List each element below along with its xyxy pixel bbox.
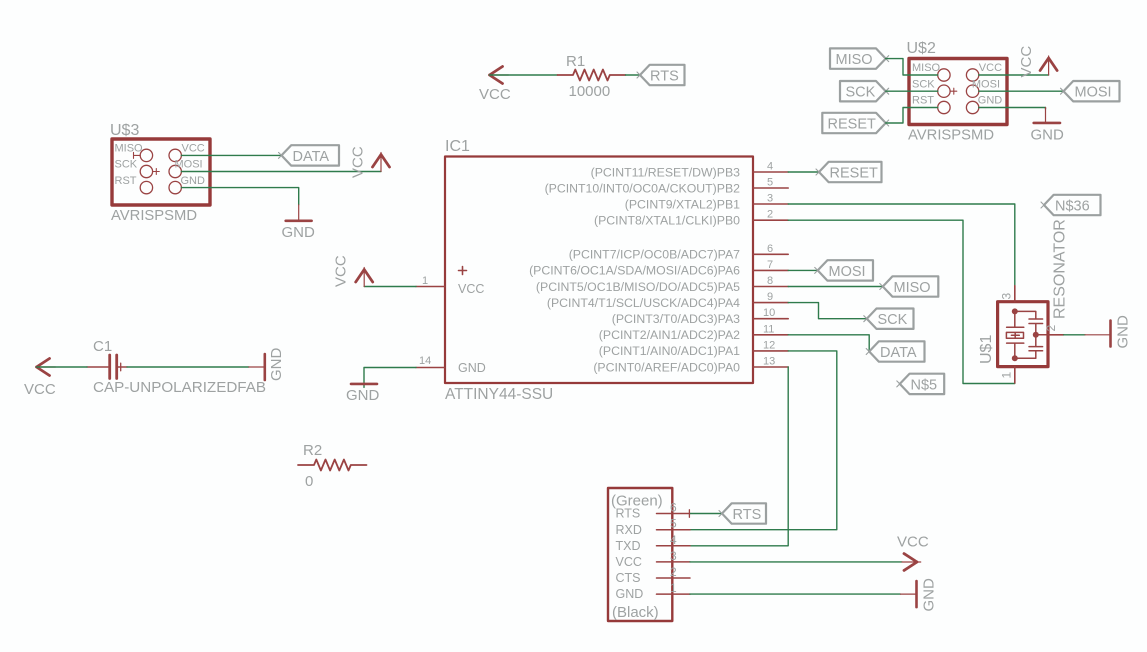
svg-text:GND: GND <box>181 175 206 187</box>
svg-text:VCC: VCC <box>333 255 350 287</box>
U$3 pin GND <box>169 175 205 194</box>
wire IC1 pin7 to MOSI flag <box>788 269 818 271</box>
svg-text:(PCINT3/T0/ADC3)PA3: (PCINT3/T0/ADC3)PA3 <box>612 312 740 326</box>
svg-text:N$36: N$36 <box>1055 199 1090 215</box>
svg-text:R2: R2 <box>303 442 322 459</box>
wire IC1 pin1 to VCC supply <box>364 286 416 288</box>
svg-text:2: 2 <box>767 209 773 221</box>
svg-text:RTS: RTS <box>650 69 679 85</box>
wire C1 to GND symbol <box>127 366 249 368</box>
svg-text:AVRISPSMD: AVRISPSMD <box>111 208 197 224</box>
svg-text:VCC: VCC <box>897 534 929 551</box>
net flag MISO (at IC1 pin8) <box>880 276 939 296</box>
ground GND (at J1, rotated) <box>901 578 938 612</box>
wire IC1 pin4 to RESET flag <box>788 171 819 173</box>
svg-text:2: 2 <box>1044 325 1058 332</box>
ground GND (at U$1, rotated) <box>1085 315 1132 349</box>
ground GND (at U$3) <box>282 205 316 241</box>
svg-text:VCC: VCC <box>182 143 205 155</box>
svg-text:10: 10 <box>763 307 775 319</box>
IC1 pin 14 (GND) <box>416 355 445 368</box>
IC1 pin 3 (PB1) <box>625 193 788 212</box>
svg-text:U$2: U$2 <box>907 40 936 57</box>
svg-text:1: 1 <box>670 581 677 595</box>
wire J1 RTS to RTS flag <box>689 510 722 518</box>
net flag RTS (bottom) <box>719 503 766 523</box>
IC1 pin 12 (PA1) <box>599 339 788 358</box>
svg-text:CAP-UNPOLARIZEDFAB: CAP-UNPOLARIZEDFAB <box>93 379 266 396</box>
U$2 pin MOSI <box>966 78 1000 97</box>
svg-text:12: 12 <box>763 339 775 351</box>
svg-text:GND: GND <box>458 361 486 375</box>
wire SCK flag to U$2 <box>886 90 938 92</box>
wire IC1 pin13 to FTDI TXD <box>690 367 788 546</box>
U$2 pin SCK <box>912 78 957 97</box>
svg-text:3: 3 <box>670 549 677 563</box>
svg-text:RESONATOR: RESONATOR <box>1052 219 1069 319</box>
svg-text:RTS: RTS <box>733 507 762 523</box>
IC1 pin 2 (PB0) <box>594 209 788 228</box>
IC1 pin 1 (VCC) <box>416 275 445 287</box>
svg-text:SCK: SCK <box>115 159 138 171</box>
wire U$2 GND pin to GND symbol <box>979 108 1046 110</box>
wire J1 GND to GND symbol <box>690 593 901 595</box>
svg-text:(PCINT7/ICP/OC0B/ADC7)PA7: (PCINT7/ICP/OC0B/ADC7)PA7 <box>569 248 740 262</box>
svg-text:(PCINT9/XTAL2)PB1: (PCINT9/XTAL2)PB1 <box>625 197 740 211</box>
supply VCC (at C1) <box>24 359 56 399</box>
component U$1 RESONATOR body <box>998 302 1048 367</box>
supply VCC (at U$2) <box>1018 46 1057 78</box>
svg-text:(PCINT2/AIN1/ADC2)PA2: (PCINT2/AIN1/ADC2)PA2 <box>599 328 740 342</box>
svg-text:14: 14 <box>419 355 431 367</box>
component U$2 AVRISPSMD body <box>909 59 1007 125</box>
net flag RESET (at IC1 pin4) <box>816 162 882 182</box>
svg-text:GND: GND <box>978 95 1003 107</box>
wire MISO flag to U$2 <box>886 59 938 75</box>
svg-text:RST: RST <box>912 95 934 107</box>
U$3 pin RST <box>115 175 153 194</box>
svg-text:VCC: VCC <box>24 381 56 398</box>
net flag N$5 <box>897 374 944 394</box>
wire U$1 pin2 to GND symbol <box>1064 334 1085 336</box>
svg-text:U$3: U$3 <box>110 122 139 139</box>
IC1 pin 4 (PB3) <box>591 161 789 180</box>
svg-text:MISO: MISO <box>912 62 941 74</box>
svg-text:(PCINT5/OC1B/MISO/DO/ADC5)PA5: (PCINT5/OC1B/MISO/DO/ADC5)PA5 <box>536 280 740 294</box>
wire IC1 pin11 to DATA flag <box>788 335 869 352</box>
svg-text:MOSI: MOSI <box>175 159 203 171</box>
U$1 crystal branch <box>1006 311 1023 358</box>
wire U$3 GND pin to GND symbol <box>181 188 298 205</box>
svg-text:RXD: RXD <box>616 523 642 537</box>
net flag MOSI (at IC1 pin7) <box>815 260 873 280</box>
J1 pin 5 RXD <box>616 517 691 537</box>
svg-text:GND: GND <box>921 578 938 612</box>
U$1 pin 3 <box>1000 286 1015 302</box>
net flag N$36 <box>1041 195 1101 215</box>
net flag DATA (left) <box>279 145 340 165</box>
svg-text:GND: GND <box>346 387 380 404</box>
J1 pin 1 GND <box>616 581 691 601</box>
net flag DATA (at IC1 pin11) <box>866 341 924 361</box>
net flag RTS (top) <box>637 65 685 85</box>
svg-text:10000: 10000 <box>569 83 611 100</box>
IC1 pin 13 (PA0) <box>593 356 788 375</box>
svg-text:7: 7 <box>767 259 773 271</box>
svg-text:SCK: SCK <box>912 78 935 90</box>
IC1 pin 9 (PA4) <box>547 291 788 310</box>
svg-text:GND: GND <box>616 587 644 601</box>
svg-text:N$5: N$5 <box>911 377 938 393</box>
svg-text:VCC: VCC <box>350 146 367 178</box>
wire VCC to R1 <box>490 74 558 76</box>
J1 pin 3 VCC <box>616 549 691 569</box>
svg-text:9: 9 <box>767 291 773 303</box>
IC1 pin 6 (PA7) <box>569 243 788 262</box>
svg-text:3: 3 <box>1000 293 1014 300</box>
U$3 pin VCC <box>169 143 205 162</box>
svg-text:RESET: RESET <box>828 117 876 133</box>
supply VCC (at J1, pointing right) <box>897 534 929 571</box>
svg-text:13: 13 <box>763 356 775 368</box>
wire U$2 MOSI pin to MOSI flag <box>979 90 1064 92</box>
svg-text:SCK: SCK <box>878 312 908 328</box>
svg-text:AVRISPSMD: AVRISPSMD <box>908 128 994 144</box>
svg-text:11: 11 <box>763 323 774 335</box>
net flag SCK (at IC1 pin9) <box>864 309 914 329</box>
wire IC1 pin14 to GND symbol <box>364 368 416 388</box>
svg-text:VCC: VCC <box>479 86 511 103</box>
svg-text:GND: GND <box>1115 315 1132 349</box>
resistor R2 <box>298 460 367 471</box>
U$1 node dot pin1 <box>1012 355 1018 361</box>
svg-text:2: 2 <box>670 565 677 579</box>
svg-text:(PCINT0/AREF/ADC0)PA0: (PCINT0/AREF/ADC0)PA0 <box>593 360 740 374</box>
U$3 pin MISO <box>115 143 153 162</box>
IC1 pin 10 (PA3) <box>612 307 788 326</box>
svg-text:C1: C1 <box>93 338 112 355</box>
svg-text:MISO: MISO <box>894 280 931 296</box>
svg-text:SCK: SCK <box>846 85 876 101</box>
capacitor C1 <box>87 355 127 379</box>
svg-text:U$1: U$1 <box>978 335 995 364</box>
svg-text:VCC: VCC <box>1018 46 1035 78</box>
svg-text:CTS: CTS <box>616 571 641 585</box>
U$1 node dot pin2 <box>1033 332 1039 338</box>
svg-text:(PCINT11/RESET/DW)PB3: (PCINT11/RESET/DW)PB3 <box>591 165 741 179</box>
svg-text:DATA: DATA <box>880 345 917 361</box>
svg-text:4: 4 <box>670 533 677 547</box>
J1 pin 2 CTS <box>616 565 691 585</box>
IC1 pin 8 (PA5) <box>536 275 788 294</box>
svg-text:GND: GND <box>268 348 285 382</box>
svg-text:5: 5 <box>767 177 773 189</box>
wire VCC to C1 <box>37 366 88 368</box>
resistor R1 <box>558 70 626 81</box>
U$1 capacitors branch <box>1015 311 1048 358</box>
svg-text:GND: GND <box>1031 127 1065 144</box>
supply VCC (top, at R1) <box>479 67 511 104</box>
svg-text:(PCINT10/INT0/OC0A/CKOUT)PB2: (PCINT10/INT0/OC0A/CKOUT)PB2 <box>545 181 741 195</box>
svg-text:1: 1 <box>1000 372 1014 379</box>
svg-text:3: 3 <box>767 193 773 205</box>
ground GND (at C1, rotated) <box>249 348 285 382</box>
svg-text:1: 1 <box>422 275 428 287</box>
U$2 pin MISO <box>912 62 950 81</box>
svg-text:MOSI: MOSI <box>829 264 866 280</box>
svg-text:IC1: IC1 <box>445 138 470 155</box>
svg-text:TXD: TXD <box>616 539 641 553</box>
svg-text:5: 5 <box>670 517 677 531</box>
wire U$3 VCC pin to DATA flag <box>181 154 281 156</box>
wire U$3 MOSI pin to VCC supply <box>181 171 381 173</box>
svg-text:MOSI: MOSI <box>1075 85 1112 101</box>
connector J1 FTDI header body <box>608 488 672 621</box>
U$1 pin 2 <box>1044 325 1064 335</box>
IC IC1 ATTINY44 body <box>445 157 753 384</box>
svg-text:GND: GND <box>282 224 316 241</box>
IC1 pin 7 (PA6) <box>529 259 788 278</box>
svg-text:VCC: VCC <box>458 282 484 296</box>
svg-text:R1: R1 <box>566 53 585 70</box>
U$3 pin SCK <box>115 159 160 178</box>
net flag MISO (top right header) <box>830 48 889 68</box>
svg-text:MISO: MISO <box>115 143 144 155</box>
svg-text:RST: RST <box>115 175 137 187</box>
svg-text:(PCINT6/OC1A/SDA/MOSI/ADC6)PA6: (PCINT6/OC1A/SDA/MOSI/ADC6)PA6 <box>529 264 740 278</box>
svg-text:8: 8 <box>767 275 773 287</box>
svg-text:(PCINT1/AIN0/ADC1)PA1: (PCINT1/AIN0/ADC1)PA1 <box>599 344 740 358</box>
svg-text:0: 0 <box>305 473 313 490</box>
svg-text:MOSI: MOSI <box>972 78 1000 90</box>
wire R1 to RTS flag <box>626 74 641 76</box>
wire IC1 pin12 to FTDI RXD <box>690 351 837 530</box>
wire IC1 pin8 to MISO flag <box>788 286 883 288</box>
net flag MOSI (right) <box>1061 81 1120 101</box>
svg-text:(Black): (Black) <box>612 604 659 621</box>
svg-text:VCC: VCC <box>616 555 642 569</box>
wire U$2 VCC pin to VCC supply <box>979 74 1049 76</box>
svg-text:(PCINT4/T1/SCL/USCK/ADC4)PA4: (PCINT4/T1/SCL/USCK/ADC4)PA4 <box>547 296 740 310</box>
J1 pin 6 RTS <box>616 501 691 521</box>
svg-text:RTS: RTS <box>616 507 641 521</box>
svg-text:VCC: VCC <box>979 62 1002 74</box>
supply VCC (at IC1 pin1) <box>333 255 373 287</box>
svg-text:4: 4 <box>767 161 773 173</box>
wire IC1 pin2 to resonator pin1 <box>788 220 1015 383</box>
U$2 pin GND <box>966 95 1002 114</box>
wire RESET flag to U$2 <box>886 108 938 124</box>
svg-text:MISO: MISO <box>836 52 873 68</box>
component U$3 AVRISPSMD body <box>112 139 210 205</box>
U$3 pin MOSI <box>169 159 203 178</box>
svg-text:6: 6 <box>767 243 773 255</box>
wire IC1 pin3 to resonator and N$36 <box>788 204 1015 286</box>
svg-text:RESET: RESET <box>830 166 878 182</box>
net flag SCK (top right header) <box>840 81 889 101</box>
U$2 pin VCC <box>966 62 1002 81</box>
svg-text:6: 6 <box>670 501 677 515</box>
svg-text:DATA: DATA <box>293 149 330 165</box>
supply VCC (at U$3) <box>350 146 390 178</box>
wire J1 VCC to VCC supply <box>690 561 902 563</box>
net flag RESET (top right header) <box>822 113 888 133</box>
ground GND (at IC1 pin14) <box>346 384 380 404</box>
IC1 internal label + VCC <box>458 267 484 297</box>
wire IC1 pin9 to SCK flag <box>788 303 867 319</box>
svg-text:ATTINY44-SSU: ATTINY44-SSU <box>445 386 553 403</box>
U$1 node dot pin3 <box>1012 308 1018 314</box>
svg-text:(PCINT8/XTAL1/CLKI)PB0: (PCINT8/XTAL1/CLKI)PB0 <box>594 214 740 228</box>
U$1 pin 1 <box>1000 367 1015 383</box>
J1 pin 4 TXD <box>616 533 691 553</box>
IC1 pin 11 (PA2) <box>599 323 788 342</box>
IC1 pin 5 (PB2) <box>545 177 789 196</box>
ground GND (at U$2) <box>1031 108 1065 144</box>
U$2 pin RST <box>912 95 950 114</box>
